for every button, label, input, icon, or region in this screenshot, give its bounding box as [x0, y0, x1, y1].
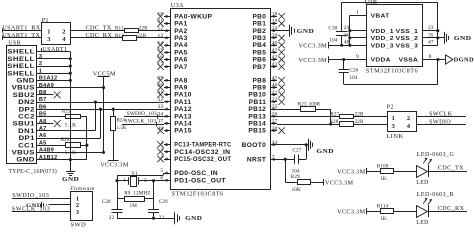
svg-text:4: 4	[62, 36, 66, 43]
svg-text:PB9: PB9	[253, 86, 267, 92]
svg-text:GND: GND	[16, 78, 35, 85]
svg-text:SWDIO_103: SWDIO_103	[12, 193, 49, 199]
svg-text:STM32F103C8T6: STM32F103C8T6	[366, 68, 418, 75]
svg-text:PA2: PA2	[174, 29, 188, 35]
svg-text:PB1: PB1	[253, 22, 267, 28]
svg-text:GND: GND	[297, 28, 315, 35]
svg-text:PA7: PA7	[174, 65, 188, 71]
svg-text:12MHZ: 12MHZ	[133, 191, 150, 197]
svg-text:SWCLK_103: SWCLK_103	[12, 207, 50, 213]
svg-text:VBUS: VBUS	[12, 150, 35, 157]
svg-text:PB11: PB11	[249, 100, 267, 106]
svg-text:43: 43	[272, 62, 278, 68]
svg-text:10K: 10K	[292, 187, 301, 193]
svg-text:PB4: PB4	[253, 43, 267, 49]
svg-text:R23: R23	[298, 101, 307, 107]
svg-text:45: 45	[272, 75, 278, 81]
svg-text:2: 2	[144, 177, 147, 183]
svg-text:R28: R28	[329, 119, 338, 125]
svg-text:1K: 1K	[380, 176, 387, 182]
svg-text:100R: 100R	[309, 101, 321, 107]
svg-text:CDC_RX: CDC_RX	[86, 32, 113, 39]
svg-text:PA9: PA9	[174, 86, 188, 92]
svg-text:PB12: PB12	[248, 107, 266, 113]
svg-text:PB10: PB10	[248, 93, 266, 99]
svg-text:VDD_1: VDD_1	[371, 29, 395, 35]
svg-text:DN1: DN1	[18, 128, 35, 135]
svg-text:9: 9	[356, 54, 359, 60]
svg-text:PB15: PB15	[248, 129, 266, 135]
svg-text:STM32F103C8T6: STM32F103C8T6	[172, 191, 224, 198]
svg-text:SWD: SWD	[70, 221, 86, 228]
svg-text:PB0: PB0	[253, 14, 267, 20]
svg-text:SWCLK_103: SWCLK_103	[125, 119, 157, 125]
svg-text:LINK: LINK	[386, 133, 403, 140]
svg-text:5.1K: 5.1K	[65, 122, 77, 128]
svg-text:2: 2	[407, 115, 411, 122]
svg-text:PB3: PB3	[253, 36, 267, 42]
svg-text:PA14: PA14	[174, 122, 192, 128]
svg-text:1: 1	[47, 28, 51, 35]
svg-text:20: 20	[272, 26, 278, 32]
svg-text:R100: R100	[377, 163, 389, 169]
svg-text:PA15: PA15	[174, 129, 192, 135]
svg-text:1.5K: 1.5K	[117, 126, 127, 131]
svg-text:SHELL: SHELL	[7, 70, 35, 77]
svg-text:VDD_3: VDD_3	[371, 43, 395, 49]
svg-text:VSS_1: VSS_1	[396, 29, 419, 35]
svg-text:22: 22	[272, 97, 278, 103]
svg-text:Y1: Y1	[131, 171, 138, 177]
svg-text:47: 47	[428, 40, 434, 46]
svg-text:C29: C29	[159, 199, 168, 205]
svg-text:P2: P2	[387, 103, 394, 110]
svg-text:3: 3	[39, 54, 42, 60]
svg-text:DP1: DP1	[19, 135, 36, 142]
svg-text:VSSA: VSSA	[399, 58, 419, 64]
svg-text:25: 25	[272, 104, 278, 110]
svg-text:VCC3.3M: VCC3.3M	[298, 57, 327, 64]
svg-text:R9: R9	[124, 191, 131, 197]
svg-text:R25: R25	[62, 110, 71, 115]
svg-text:4: 4	[407, 123, 411, 130]
svg-text:34: 34	[157, 111, 163, 117]
svg-text:C26: C26	[349, 67, 358, 73]
svg-text:CC1: CC1	[18, 142, 35, 149]
svg-text:CC2: CC2	[18, 114, 35, 121]
svg-text:1: 1	[392, 115, 396, 122]
svg-text:32: 32	[157, 97, 163, 103]
svg-text:22: 22	[109, 215, 115, 221]
svg-text:42: 42	[272, 55, 278, 61]
svg-text:3: 3	[76, 209, 80, 216]
svg-text:B8: B8	[39, 90, 47, 96]
svg-text:GND: GND	[316, 148, 334, 155]
svg-text:U3A: U3A	[171, 2, 184, 9]
svg-text:27: 27	[272, 119, 278, 125]
svg-text:VSS_2: VSS_2	[396, 36, 419, 42]
svg-text:PA1: PA1	[174, 22, 188, 28]
svg-text:GND: GND	[454, 35, 472, 42]
svg-text:3: 3	[47, 36, 51, 43]
svg-text:PC15-OSC32_OUT: PC15-OSC32_OUT	[174, 157, 231, 163]
svg-text:DGND: DGND	[454, 57, 474, 64]
svg-text:LED: LED	[416, 180, 428, 186]
svg-text:1M: 1M	[130, 203, 138, 209]
svg-text:19: 19	[272, 19, 278, 25]
svg-text:R29: R29	[291, 174, 300, 180]
svg-text:33: 33	[157, 104, 163, 110]
svg-text:5.1K: 5.1K	[65, 150, 77, 156]
svg-text:LED-0603_B: LED-0603_B	[417, 192, 454, 198]
svg-text:R11: R11	[115, 26, 124, 32]
svg-text:SHELL: SHELL	[7, 56, 35, 63]
svg-text:R114: R114	[377, 204, 389, 210]
svg-text:PB5: PB5	[253, 50, 267, 56]
svg-text:1K: 1K	[380, 216, 387, 222]
svg-text:40: 40	[272, 40, 278, 46]
svg-text:LED-0603_G: LED-0603_G	[417, 152, 455, 158]
svg-text:1: 1	[123, 177, 126, 183]
svg-text:44: 44	[272, 140, 278, 146]
svg-text:CDC_RX: CDC_RX	[438, 205, 465, 212]
svg-text:PD1-OSC_OUT: PD1-OSC_OUT	[174, 178, 226, 184]
svg-text:104: 104	[349, 75, 357, 81]
svg-text:7: 7	[272, 154, 275, 160]
svg-text:R26: R26	[61, 138, 70, 143]
svg-text:SBU2: SBU2	[13, 92, 36, 99]
svg-text:PB7: PB7	[253, 65, 267, 71]
svg-text:CDC_TX: CDC_TX	[438, 165, 464, 172]
svg-text:PA0-WKUP: PA0-WKUP	[174, 14, 212, 20]
svg-text:SBU1: SBU1	[13, 121, 36, 128]
svg-text:PA4: PA4	[174, 43, 188, 49]
svg-text:PB8: PB8	[253, 78, 267, 84]
svg-text:PA6: PA6	[174, 58, 188, 64]
svg-text:35: 35	[428, 32, 434, 38]
svg-text:SWCLK: SWCLK	[429, 111, 453, 118]
svg-text:PA13: PA13	[174, 114, 192, 120]
svg-text:1: 1	[356, 10, 359, 16]
svg-text:SHELL: SHELL	[7, 63, 35, 70]
svg-text:PA5: PA5	[174, 50, 188, 56]
svg-text:VBAT: VBAT	[371, 13, 390, 19]
svg-text:5: 5	[160, 168, 163, 174]
svg-text:VDD_2: VDD_2	[371, 36, 395, 42]
svg-text:PA10: PA10	[174, 93, 192, 99]
svg-text:21: 21	[272, 90, 278, 96]
svg-text:41: 41	[272, 48, 278, 54]
svg-text:39: 39	[272, 33, 278, 39]
svg-text:SWDIO: SWDIO	[429, 118, 451, 125]
svg-text:C27: C27	[292, 147, 301, 153]
svg-text:CDC_TX: CDC_TX	[86, 25, 112, 32]
svg-text:2: 2	[62, 28, 66, 35]
svg-text:3: 3	[392, 123, 396, 130]
svg-text:VCC3.3M: VCC3.3M	[298, 43, 327, 50]
svg-text:PD0-OSC_IN: PD0-OSC_IN	[174, 171, 218, 177]
svg-text:GND: GND	[16, 157, 35, 164]
svg-text:PA12: PA12	[174, 107, 192, 113]
svg-text:18: 18	[272, 12, 278, 18]
svg-text:TYPE-C_16P(073): TYPE-C_16P(073)	[8, 168, 57, 175]
svg-text:GND: GND	[185, 216, 202, 222]
svg-text:VSS_3: VSS_3	[396, 43, 419, 49]
svg-text:VBUS: VBUS	[12, 85, 35, 92]
svg-text:23: 23	[428, 25, 434, 31]
svg-text:DN2: DN2	[18, 99, 35, 106]
svg-text:PA3: PA3	[174, 36, 188, 42]
svg-text:NRST: NRST	[247, 157, 266, 163]
svg-text:BOOT0: BOOT0	[242, 143, 267, 149]
svg-text:PB14: PB14	[248, 122, 266, 128]
svg-text:46: 46	[272, 83, 278, 89]
svg-text:VCC3.3M: VCC3.3M	[337, 209, 366, 216]
svg-text:LED: LED	[416, 220, 428, 226]
svg-text:22R: 22R	[137, 33, 146, 39]
svg-text:PB13: PB13	[248, 114, 266, 120]
svg-text:R27: R27	[330, 112, 339, 118]
svg-text:48: 48	[344, 40, 350, 46]
svg-text:VCC3.3M: VCC3.3M	[100, 162, 129, 169]
svg-text:PA11: PA11	[174, 100, 191, 106]
svg-text:C28: C28	[102, 199, 111, 205]
svg-text:PB2: PB2	[253, 29, 267, 35]
svg-text:C30: C30	[328, 25, 337, 31]
svg-text:PB6: PB6	[253, 58, 267, 64]
svg-text:PC14-OSC32_IN: PC14-OSC32_IN	[174, 150, 230, 156]
svg-text:28: 28	[272, 126, 278, 132]
svg-text:A7: A7	[39, 126, 47, 132]
svg-text:13: 13	[157, 33, 163, 39]
svg-text:12: 12	[157, 26, 163, 32]
svg-text:DP2: DP2	[19, 106, 36, 113]
svg-text:PA8: PA8	[174, 78, 188, 84]
svg-text:VCC3.3M: VCC3.3M	[337, 168, 366, 175]
svg-text:GND: GND	[62, 177, 79, 183]
svg-text:37: 37	[157, 119, 163, 125]
svg-text:PC13-TAMPER-RTC: PC13-TAMPER-RTC	[174, 143, 231, 149]
svg-text:VCC3.3M: VCC3.3M	[325, 179, 354, 186]
svg-text:VDDA: VDDA	[371, 58, 392, 64]
svg-text:26: 26	[272, 111, 278, 117]
svg-text:104: 104	[329, 38, 337, 44]
svg-text:SHELL: SHELL	[7, 49, 35, 56]
